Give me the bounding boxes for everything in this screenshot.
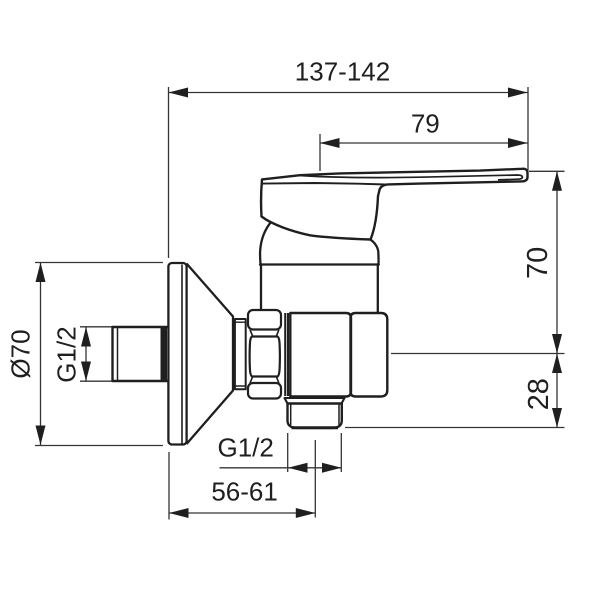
svg-text:G1/2: G1/2 xyxy=(52,326,82,382)
svg-text:Ø70: Ø70 xyxy=(5,329,35,378)
svg-text:70: 70 xyxy=(522,247,554,279)
svg-text:28: 28 xyxy=(523,378,555,410)
svg-text:56-61: 56-61 xyxy=(211,477,278,507)
svg-text:79: 79 xyxy=(411,109,440,139)
svg-text:137-142: 137-142 xyxy=(295,57,390,87)
svg-text:G1/2: G1/2 xyxy=(218,433,274,463)
